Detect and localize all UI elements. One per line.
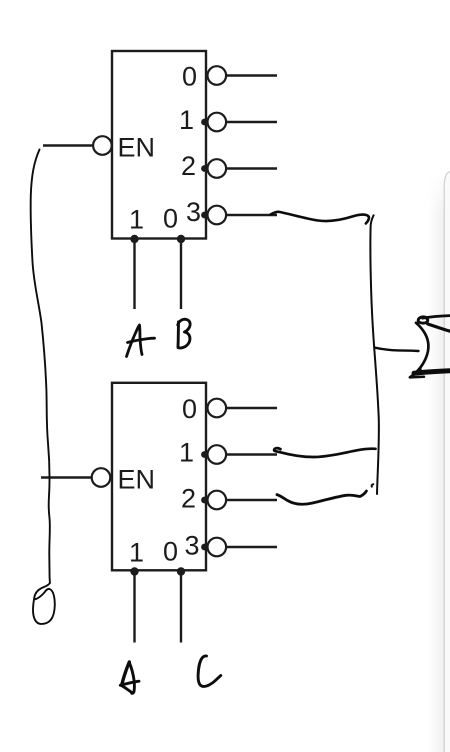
wire from U2 out2 (squiggle right) bbox=[277, 491, 366, 504]
junction dot U2 input C bbox=[177, 567, 185, 575]
output bubble 0 bbox=[208, 399, 227, 418]
wire U1 out0 bbox=[226, 74, 277, 76]
wire U2 out1 bbox=[226, 453, 277, 455]
brace top stroke bbox=[423, 316, 450, 319]
handwritten label A (under U1) bbox=[127, 325, 143, 357]
wire U2 out3 bbox=[226, 546, 277, 548]
tick mark near U2 out2 wire end bbox=[372, 484, 374, 487]
svg-text:3: 3 bbox=[186, 197, 201, 227]
vertical bus wire bbox=[370, 215, 379, 494]
wire U2 input C bbox=[180, 572, 182, 643]
svg-text:EN: EN bbox=[118, 465, 156, 495]
wire U1 EN bbox=[43, 144, 93, 146]
svg-text:2: 2 bbox=[181, 484, 196, 514]
wire U1 input B bbox=[180, 239, 182, 309]
svg-text:2: 2 bbox=[181, 151, 196, 181]
EN bubble U2 bbox=[92, 468, 111, 487]
wire U2 EN bbox=[41, 476, 92, 478]
handwritten label A (under U2) bbox=[122, 662, 130, 685]
svg-text:1: 1 bbox=[179, 105, 194, 135]
wire U1 out1 bbox=[226, 121, 277, 123]
decoder U2 body bbox=[112, 383, 206, 571]
wire EN-U1 to loop (long left wire) bbox=[31, 150, 50, 584]
svg-text:0: 0 bbox=[163, 204, 178, 234]
wire U1 out3 bbox=[226, 214, 277, 216]
EN bubble U1 bbox=[93, 136, 112, 155]
junction dot U1 out3 bbox=[201, 212, 208, 219]
output bubble 0 bbox=[208, 66, 227, 85]
brace upper-right stroke bbox=[428, 324, 450, 331]
junction dot U1 input B bbox=[177, 235, 185, 243]
output bubble 1 bbox=[208, 113, 227, 132]
wire from U2 out1 (squiggle right) bbox=[274, 448, 375, 457]
wire U2 out2 bbox=[226, 499, 277, 501]
svg-text:1: 1 bbox=[129, 205, 144, 235]
card edge panel (right side) bbox=[428, 172, 450, 752]
output bubble 2 bbox=[208, 491, 227, 510]
brace scribble loop bbox=[418, 317, 428, 323]
junction dot U1 input A bbox=[130, 235, 138, 243]
junction dot U2 input A bbox=[130, 567, 138, 575]
svg-text:0: 0 bbox=[163, 537, 178, 567]
svg-text:EN: EN bbox=[118, 133, 156, 163]
wire U1 input A bbox=[133, 239, 135, 309]
junction dot U2 out2 bbox=[201, 497, 208, 504]
junction dot U2 out1 bbox=[201, 451, 208, 458]
svg-text:3: 3 bbox=[185, 531, 200, 561]
wire branch to brace bbox=[375, 348, 419, 352]
svg-text:1: 1 bbox=[179, 438, 194, 468]
handwritten label B (under U1) bbox=[176, 322, 180, 348]
svg-text:1: 1 bbox=[129, 538, 144, 568]
wire U2 input A bbox=[133, 572, 135, 643]
junction dot U1 out2 bbox=[201, 165, 208, 172]
svg-text:0: 0 bbox=[182, 394, 197, 424]
junction dot U2 out3 bbox=[201, 544, 208, 551]
output bubble 3 bbox=[208, 206, 227, 225]
wire U2 out0 bbox=[226, 407, 277, 409]
brace bottom heavy stroke bbox=[414, 371, 450, 373]
wire U1 out2 bbox=[226, 167, 277, 169]
loop terminal at wire end bbox=[33, 583, 55, 624]
brace bottom beak bbox=[410, 369, 424, 377]
output bubble 1 bbox=[208, 445, 227, 464]
decoder U1 body bbox=[112, 51, 206, 239]
output bubble 3 bbox=[208, 538, 227, 557]
handwritten label C (under U2) bbox=[198, 656, 221, 686]
brace big curve bbox=[410, 323, 428, 377]
svg-text:0: 0 bbox=[182, 62, 197, 92]
output bubble 2 bbox=[208, 159, 227, 178]
junction dot U1 out1 bbox=[201, 119, 208, 126]
wire from U1 out3 (squiggle right) bbox=[271, 212, 369, 224]
